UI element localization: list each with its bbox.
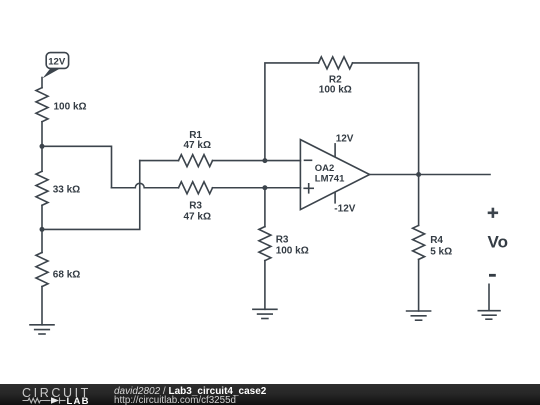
ground (478, 311, 500, 320)
svg-text:12V: 12V (48, 56, 66, 67)
resistor 100 k&#937; (36, 88, 87, 122)
power stub 12V (335, 134, 354, 157)
svg-text:100 kΩ: 100 kΩ (54, 102, 87, 113)
wire (418, 175, 420, 226)
resistor R1 47 k&#937; (179, 130, 213, 166)
wire with hop (112, 183, 179, 187)
output wire (370, 174, 490, 176)
node (416, 172, 421, 177)
svg-text:LM741: LM741 (315, 174, 345, 185)
wire (41, 229, 43, 252)
op-amp OA2 LM741 (300, 140, 369, 210)
resistor 33 k&#937; (36, 171, 80, 205)
svg-text:R3: R3 (189, 201, 202, 212)
node (262, 185, 267, 190)
svg-text:R3: R3 (276, 234, 289, 245)
resistor R2 100 k&#937; (319, 57, 353, 96)
wire (41, 122, 43, 147)
svg-text:Vo: Vo (488, 232, 508, 251)
svg-text:LAB: LAB (67, 396, 90, 404)
footer bar (0, 384, 540, 405)
wire (488, 284, 490, 310)
node (40, 144, 45, 149)
wire (213, 187, 301, 189)
resistor R4 5 k&#937; (413, 225, 453, 259)
ground (30, 325, 54, 334)
power stub -12V (334, 193, 355, 215)
svg-text:100 kΩ: 100 kΩ (276, 246, 309, 257)
ground (253, 309, 277, 318)
svg-text:5 kΩ: 5 kΩ (430, 246, 452, 257)
svg-text:47 kΩ: 47 kΩ (184, 212, 211, 223)
wire (418, 259, 420, 311)
node (262, 158, 267, 163)
label + (489, 209, 497, 217)
voltage source label 12V (43, 53, 69, 79)
wire (265, 63, 319, 161)
resistor R3 100 k&#937; (259, 227, 309, 261)
resistor 68 k&#937; (36, 253, 80, 287)
svg-text:33 kΩ: 33 kΩ (53, 185, 80, 196)
wire (213, 160, 301, 162)
wire (42, 161, 140, 230)
svg-text:68 kΩ: 68 kΩ (53, 269, 80, 280)
wire (41, 78, 43, 88)
svg-text:R4: R4 (430, 235, 443, 246)
resistor R3 47 k&#937; (179, 182, 213, 223)
svg-text:12V: 12V (336, 134, 354, 145)
ground (407, 311, 431, 320)
svg-text:R2: R2 (329, 74, 342, 85)
wire (264, 261, 266, 310)
wire (41, 146, 43, 171)
wire (42, 146, 112, 187)
CircuitLab logo (21, 385, 93, 404)
node (40, 227, 45, 232)
svg-text:47 kΩ: 47 kΩ (184, 140, 211, 151)
wire (264, 188, 266, 227)
wire (41, 205, 43, 229)
wire (140, 160, 179, 162)
label - (489, 274, 496, 277)
svg-text:100 kΩ: 100 kΩ (319, 85, 352, 96)
wire (41, 287, 43, 325)
svg-text:-12V: -12V (334, 204, 355, 215)
wire (353, 63, 419, 175)
